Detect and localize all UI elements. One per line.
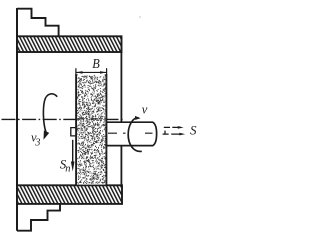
svg-text:n: n	[65, 164, 70, 175]
svg-text:S: S	[190, 123, 197, 138]
centerline over workpiece	[77, 118, 107, 120]
dimension B extension ticks	[75, 68, 77, 75]
faint speck top right	[139, 16, 141, 18]
chuck back plate left edge	[16, 8, 18, 231]
chuck top stepped outline	[17, 9, 59, 36]
dimension B line with arrows	[76, 71, 106, 73]
svg-text:v: v	[142, 103, 148, 117]
chuck face vertical line lower	[120, 146, 122, 185]
shaft rotation arc v	[128, 118, 142, 152]
centerline (dash-dot)	[2, 118, 125, 120]
chuck face vertical line upper	[120, 52, 122, 122]
shaft centerline dashes	[108, 132, 153, 134]
chuck bottom stepped outline	[17, 205, 60, 231]
workpiece rotation arc v3	[43, 94, 57, 134]
workpiece right edge through shaft	[106, 122, 108, 147]
feed arrow sn (down)	[72, 140, 74, 165]
feed arrow s (right, doubled)	[164, 126, 181, 128]
svg-text:3: 3	[34, 137, 40, 148]
svg-text:B: B	[92, 55, 100, 71]
tool bracket	[71, 128, 77, 136]
top jaw (hatched)	[17, 36, 122, 52]
shaft body	[107, 122, 157, 145]
bottom jaw (hatched)	[17, 185, 122, 204]
workpiece stipple texture	[77, 75, 107, 184]
workpiece (stippled disc)	[76, 74, 107, 184]
